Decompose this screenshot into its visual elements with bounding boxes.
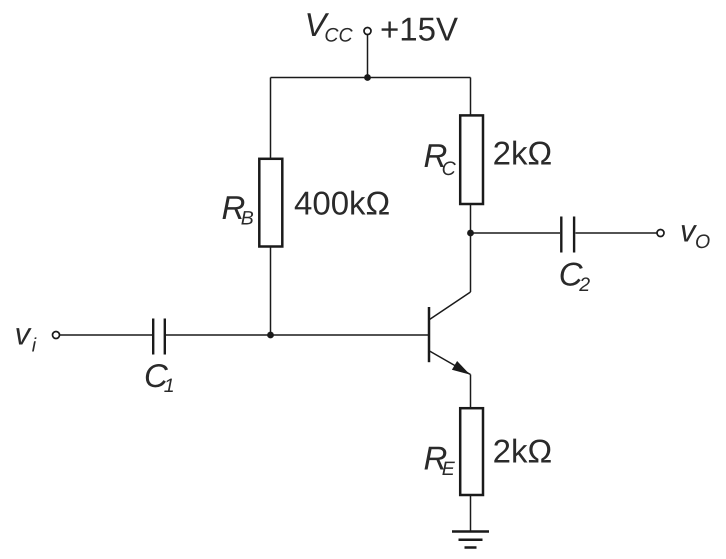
- svg-text:v: v: [15, 317, 32, 352]
- svg-text:CC: CC: [324, 25, 353, 47]
- svg-text:2kΩ: 2kΩ: [493, 135, 553, 172]
- svg-text:400kΩ: 400kΩ: [294, 185, 390, 222]
- svg-text:E: E: [442, 458, 456, 480]
- svg-text:i: i: [32, 334, 37, 356]
- svg-text:2kΩ: 2kΩ: [493, 433, 553, 470]
- svg-text:1: 1: [164, 375, 175, 397]
- svg-text:C: C: [442, 158, 457, 180]
- svg-text:+15V: +15V: [380, 11, 458, 48]
- svg-text:2: 2: [578, 274, 590, 296]
- svg-text:O: O: [695, 231, 710, 253]
- svg-text:B: B: [241, 208, 254, 230]
